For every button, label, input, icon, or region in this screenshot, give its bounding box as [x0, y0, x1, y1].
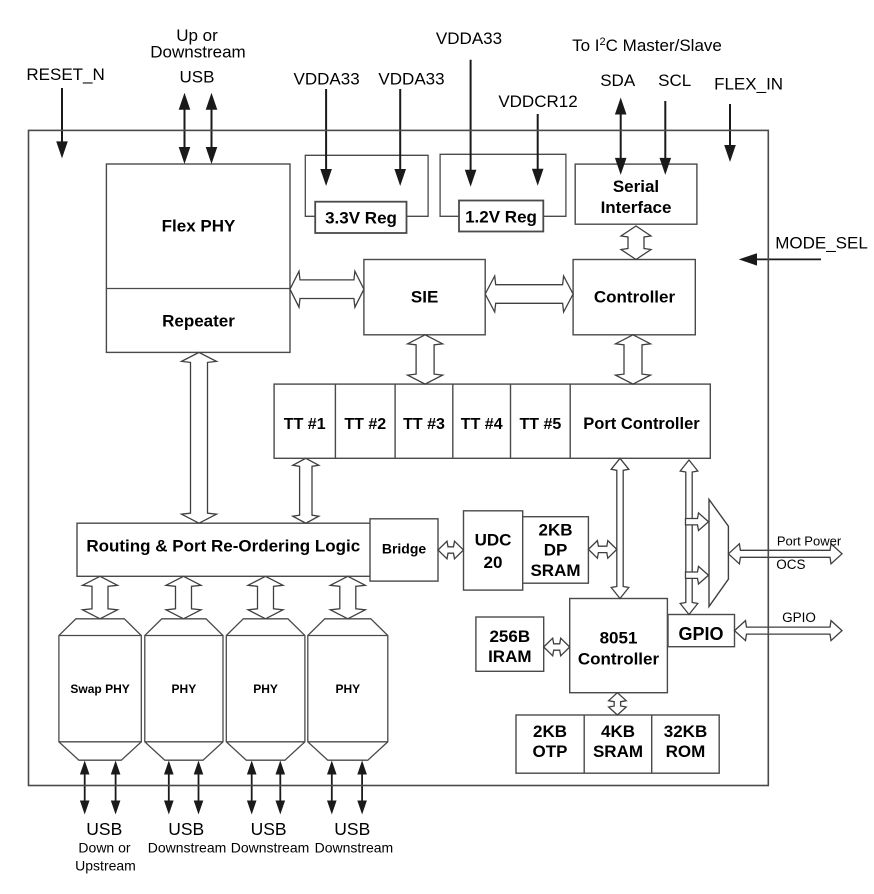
bus GPIO external	[735, 621, 843, 641]
signal MODE_SEL arrow	[755, 258, 821, 260]
svg-text:USB: USB	[168, 819, 204, 839]
svg-text:Downstream: Downstream	[315, 840, 394, 856]
block Flex PHY / Repeater	[106, 164, 290, 352]
svg-text:Serial: Serial	[613, 177, 659, 196]
bus branch to mux lower	[686, 566, 709, 584]
block Bridge	[370, 519, 438, 581]
svg-text:SIE: SIE	[411, 288, 438, 307]
signal USB port2 arrows	[168, 773, 170, 803]
svg-text:PHY: PHY	[253, 682, 278, 696]
svg-text:Upstream: Upstream	[75, 857, 136, 873]
svg-text:GPIO: GPIO	[678, 624, 723, 644]
signal VDDA33 arrow 1	[325, 89, 327, 171]
svg-text:256B: 256B	[489, 627, 530, 646]
block 3.3V Reg	[315, 202, 406, 233]
svg-text:Controller: Controller	[578, 650, 660, 669]
svg-text:Controller: Controller	[594, 288, 676, 307]
signal VDDA33 arrow 2	[399, 89, 401, 171]
svg-text:USB: USB	[180, 68, 215, 87]
bus Repeater to Routing Logic	[182, 352, 217, 523]
svg-text:32KB: 32KB	[664, 722, 707, 741]
svg-text:Down or: Down or	[78, 840, 130, 856]
bus 8051 to memory row	[609, 693, 627, 715]
signal USB port3 arrows	[251, 773, 253, 803]
svg-text:PHY: PHY	[172, 682, 197, 696]
block PHY	[145, 619, 223, 760]
svg-text:3.3V Reg: 3.3V Reg	[325, 208, 397, 227]
bus Controller to Port Controller	[616, 335, 651, 384]
bus Routing Logic to PHY 3	[248, 576, 283, 619]
svg-text:Swap PHY: Swap PHY	[70, 682, 129, 696]
svg-text:2KB: 2KB	[538, 521, 572, 540]
svg-text:TT #4: TT #4	[461, 416, 503, 433]
svg-text:VDDA33: VDDA33	[378, 69, 444, 88]
block PHY	[308, 619, 388, 760]
svg-text:Downstream: Downstream	[231, 840, 310, 856]
svg-text:Port Power: Port Power	[777, 533, 842, 548]
bus 256B IRAM to 8051	[544, 638, 570, 656]
bus branch to mux upper	[686, 513, 709, 531]
signal SDA arrow	[620, 113, 622, 160]
mux port power select	[709, 499, 728, 606]
svg-text:RESET_N: RESET_N	[26, 65, 104, 84]
signal VDDA33 arrow 3	[470, 60, 472, 172]
svg-text:OCS: OCS	[776, 557, 805, 572]
svg-text:4KB: 4KB	[601, 722, 635, 741]
bracket 1.2V regulator input loop	[440, 154, 566, 216]
signal upstream USB arrow right	[211, 108, 213, 149]
signal USB port4 arrows	[331, 773, 333, 803]
svg-text:VDDA33: VDDA33	[436, 29, 502, 48]
signal FLEX_IN arrow	[729, 104, 731, 147]
svg-text:Downstream: Downstream	[148, 840, 227, 856]
bus Bridge to UDC 20	[438, 541, 464, 559]
svg-text:FLEX_IN: FLEX_IN	[714, 74, 783, 93]
svg-text:USB: USB	[86, 819, 122, 839]
signal upstream USB arrow left	[184, 108, 186, 149]
bus Port Controller to 8051 Controller	[611, 458, 629, 598]
bus Routing Logic to PHY 4	[330, 576, 365, 619]
block memory row 2KB OTP / 4KB SRAM / 32KB ROM	[516, 715, 719, 773]
svg-text:PHY: PHY	[335, 682, 360, 696]
bus Flex PHY to SIE	[290, 271, 364, 307]
svg-text:MODE_SEL: MODE_SEL	[775, 233, 868, 252]
svg-text:Flex PHY: Flex PHY	[162, 217, 236, 236]
block 8051 Controller	[570, 599, 668, 693]
block SIE	[364, 260, 485, 335]
block Routing & Port Re-Ordering Logic	[77, 523, 371, 576]
bus Serial Interface to Controller	[621, 226, 651, 260]
svg-text:2KB: 2KB	[533, 722, 567, 741]
block 2KB DP SRAM	[523, 517, 589, 584]
svg-text:VDDA33: VDDA33	[294, 69, 360, 88]
bus TT #1 to Routing Logic	[293, 458, 319, 523]
signal RESET_N arrow	[61, 88, 63, 143]
bus Routing Logic to Swap PHY	[83, 576, 118, 619]
svg-text:SDA: SDA	[600, 71, 636, 90]
svg-text:GPIO: GPIO	[782, 610, 816, 625]
signal USB port1 arrows	[84, 773, 86, 803]
block 1.2V Reg	[459, 201, 543, 232]
svg-text:SCL: SCL	[658, 71, 691, 90]
svg-text:TT #5: TT #5	[520, 416, 562, 433]
bus 2KB DP SRAM to Port Controller bus	[588, 541, 616, 559]
svg-text:TT #1: TT #1	[284, 416, 326, 433]
svg-text:DP: DP	[544, 541, 568, 560]
svg-text:UDC: UDC	[475, 531, 512, 550]
block Controller	[573, 260, 695, 335]
block PHY	[226, 619, 305, 760]
block UDC 20	[464, 511, 523, 590]
svg-text:8051: 8051	[600, 629, 638, 648]
block TT row with Port Controller	[274, 384, 710, 458]
svg-text:USB: USB	[251, 819, 287, 839]
bus Port Power / OCS	[728, 544, 842, 564]
bus SIE to TT row	[408, 335, 443, 384]
svg-text:Port Controller: Port Controller	[583, 415, 700, 433]
svg-text:Repeater: Repeater	[162, 312, 235, 331]
svg-text:SRAM: SRAM	[593, 742, 643, 761]
bracket 3.3V regulator input loop	[305, 155, 428, 216]
bus Port Controller to GPIO	[680, 460, 698, 615]
svg-text:SRAM: SRAM	[530, 561, 580, 580]
svg-text:VDDCR12: VDDCR12	[498, 92, 577, 111]
bus SIE to Controller	[485, 276, 573, 312]
block Swap PHY	[59, 619, 141, 760]
block Serial Interface	[575, 164, 697, 224]
svg-text:Routing & Port Re-Ordering Log: Routing & Port Re-Ordering Logic	[86, 537, 360, 556]
signal VDDCR12 arrow	[537, 114, 539, 171]
svg-text:20: 20	[484, 553, 503, 572]
svg-text:Bridge: Bridge	[382, 540, 427, 556]
chip boundary	[29, 130, 769, 785]
block GPIO	[668, 615, 735, 647]
signal SCL arrow	[664, 101, 666, 160]
svg-text:TT #2: TT #2	[344, 416, 386, 433]
svg-text:TT #3: TT #3	[403, 416, 445, 433]
bus Routing Logic to PHY 2	[166, 576, 201, 619]
svg-text:To I2C Master/Slave: To I2C Master/Slave	[572, 36, 722, 55]
svg-text:USB: USB	[334, 819, 370, 839]
svg-text:1.2V Reg: 1.2V Reg	[465, 208, 537, 227]
block 256B IRAM	[476, 617, 544, 671]
svg-text:IRAM: IRAM	[488, 647, 531, 666]
svg-text:ROM: ROM	[666, 742, 706, 761]
svg-text:OTP: OTP	[533, 742, 568, 761]
svg-text:Interface: Interface	[601, 198, 672, 217]
svg-text:Downstream: Downstream	[150, 43, 245, 62]
